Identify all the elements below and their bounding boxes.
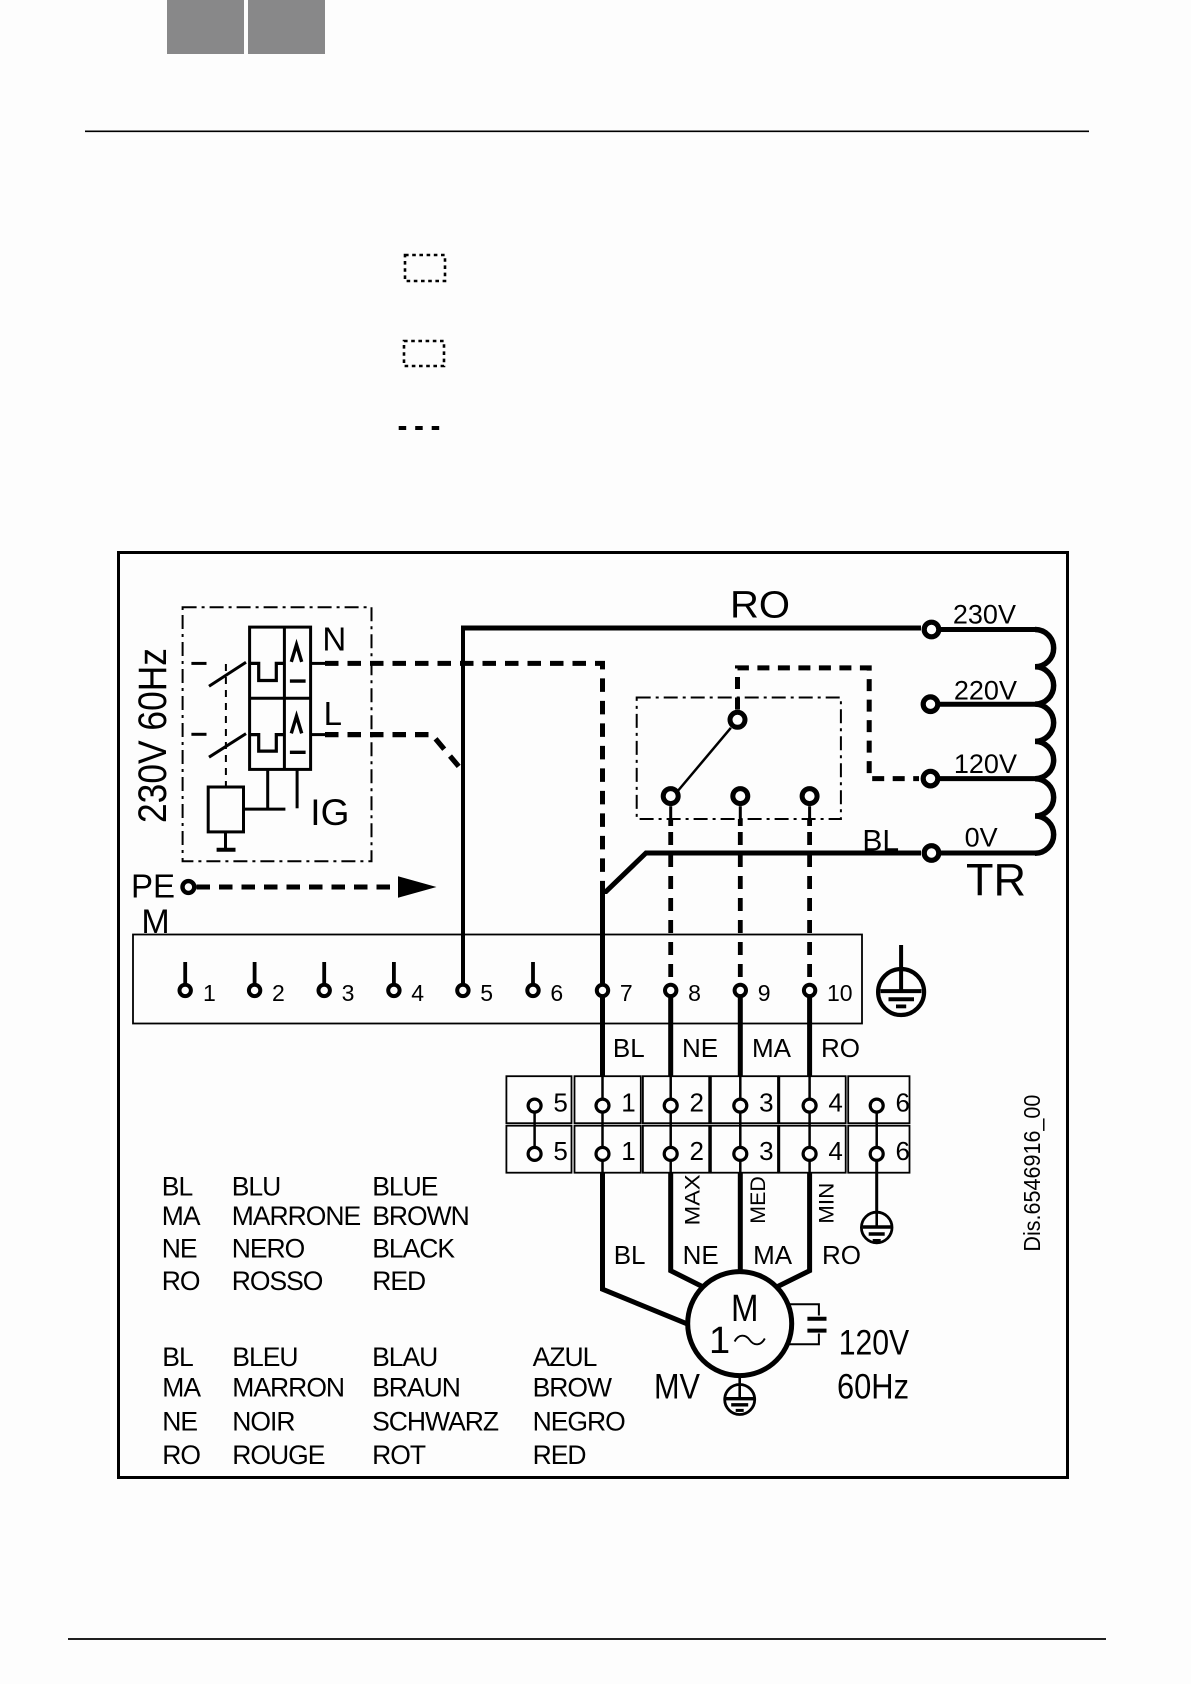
svg-text:5: 5	[553, 1088, 567, 1118]
svg-text:4: 4	[828, 1136, 842, 1166]
svg-text:IG: IG	[310, 792, 349, 833]
svg-text:1: 1	[621, 1136, 635, 1166]
svg-text:BROW: BROW	[533, 1373, 612, 1403]
svg-text:3: 3	[759, 1136, 773, 1166]
svg-text:9: 9	[758, 980, 771, 1006]
svg-text:120V: 120V	[839, 1324, 910, 1363]
svg-text:220V: 220V	[954, 676, 1017, 706]
svg-text:N: N	[322, 621, 346, 658]
svg-text:MA: MA	[162, 1201, 201, 1231]
svg-text:1: 1	[621, 1088, 635, 1118]
svg-text:4: 4	[411, 980, 424, 1006]
svg-text:120V: 120V	[954, 749, 1017, 779]
svg-text:MIN: MIN	[815, 1183, 839, 1224]
svg-text:5: 5	[480, 980, 493, 1006]
svg-text:BROWN: BROWN	[372, 1201, 469, 1231]
svg-text:NE: NE	[162, 1406, 197, 1436]
svg-text:NE: NE	[683, 1240, 719, 1270]
svg-text:1: 1	[709, 1320, 730, 1362]
svg-text:MARRONE: MARRONE	[232, 1201, 361, 1231]
svg-text:RO: RO	[822, 1240, 861, 1270]
svg-text:MARRON: MARRON	[232, 1373, 344, 1403]
svg-text:BLUE: BLUE	[372, 1172, 438, 1202]
svg-text:230V 60Hz: 230V 60Hz	[131, 648, 175, 823]
svg-text:BLACK: BLACK	[372, 1234, 455, 1264]
svg-text:10: 10	[827, 980, 853, 1006]
svg-text:3: 3	[342, 980, 355, 1006]
svg-text:1: 1	[203, 980, 216, 1006]
svg-text:60Hz: 60Hz	[837, 1367, 909, 1406]
svg-text:BLEU: BLEU	[232, 1342, 297, 1372]
svg-text:NE: NE	[162, 1234, 197, 1264]
svg-text:NE: NE	[682, 1033, 718, 1063]
svg-text:NERO: NERO	[232, 1234, 305, 1264]
svg-text:RO: RO	[821, 1033, 860, 1063]
svg-text:2: 2	[272, 980, 285, 1006]
svg-text:AZUL: AZUL	[533, 1342, 597, 1372]
svg-text:TR: TR	[966, 855, 1026, 906]
svg-text:230V: 230V	[953, 599, 1016, 629]
svg-text:NEGRO: NEGRO	[533, 1406, 626, 1436]
svg-text:8: 8	[688, 980, 701, 1006]
svg-text:Dis.6546916_00: Dis.6546916_00	[1019, 1095, 1045, 1252]
svg-text:5: 5	[553, 1136, 567, 1166]
svg-text:BLU: BLU	[232, 1172, 281, 1202]
svg-text:RED: RED	[533, 1440, 586, 1470]
svg-text:6: 6	[895, 1136, 909, 1166]
svg-text:BLAU: BLAU	[372, 1342, 437, 1372]
svg-text:7: 7	[620, 980, 633, 1006]
svg-text:RED: RED	[372, 1266, 425, 1296]
svg-text:ROUGE: ROUGE	[232, 1440, 324, 1470]
svg-text:M: M	[731, 1288, 759, 1330]
svg-text:BRAUN: BRAUN	[372, 1373, 460, 1403]
svg-text:BL: BL	[862, 825, 899, 858]
svg-text:MA: MA	[752, 1033, 792, 1063]
svg-text:6: 6	[895, 1088, 909, 1118]
svg-text:L: L	[324, 695, 342, 732]
svg-text:RO: RO	[162, 1266, 200, 1296]
svg-text:RO: RO	[730, 585, 790, 627]
svg-text:BL: BL	[162, 1342, 193, 1372]
svg-text:3: 3	[759, 1088, 773, 1118]
svg-text:0V: 0V	[965, 823, 998, 853]
svg-text:2: 2	[689, 1088, 703, 1118]
svg-text:ROT: ROT	[372, 1440, 426, 1470]
svg-text:6: 6	[550, 980, 563, 1006]
svg-text:MV: MV	[654, 1367, 701, 1406]
svg-text:NOIR: NOIR	[232, 1406, 294, 1436]
svg-text:ROSSO: ROSSO	[232, 1266, 323, 1296]
svg-text:MA: MA	[753, 1240, 793, 1270]
svg-text:PE: PE	[131, 867, 175, 904]
svg-text:MAX: MAX	[680, 1174, 704, 1225]
svg-text:MA: MA	[162, 1373, 201, 1403]
svg-text:BL: BL	[613, 1033, 645, 1063]
svg-text:SCHWARZ: SCHWARZ	[372, 1406, 499, 1436]
svg-text:MED: MED	[746, 1176, 770, 1224]
svg-text:RO: RO	[162, 1440, 200, 1470]
svg-text:4: 4	[828, 1088, 842, 1118]
svg-text:BL: BL	[162, 1172, 193, 1202]
svg-text:BL: BL	[614, 1240, 646, 1270]
svg-text:2: 2	[689, 1136, 703, 1166]
